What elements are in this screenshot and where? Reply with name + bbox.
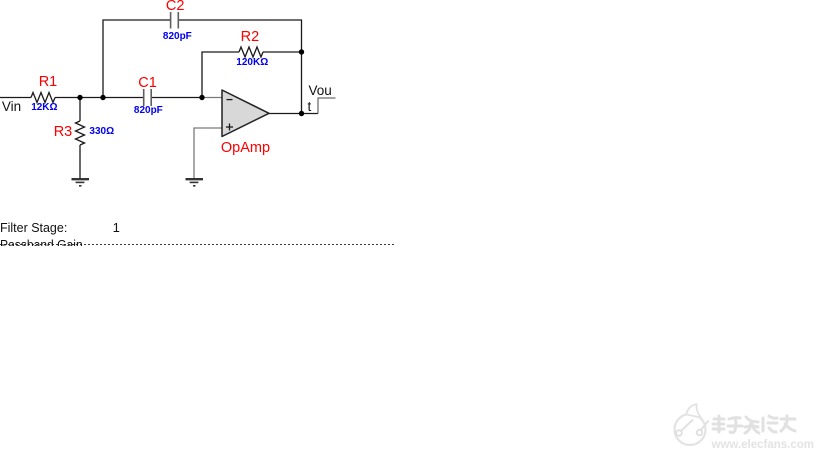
wire op-amp output — [269, 113, 302, 115]
node junction (C2 branch) — [100, 95, 105, 100]
text passband gain label — [0, 238, 82, 251]
node junction (R1/R3) — [77, 95, 82, 100]
wire R2 branch — [202, 52, 302, 98]
ground (under R3) — [72, 179, 90, 186]
value R2 120K — [236, 58, 268, 68]
wire R3 branch — [79, 98, 81, 179]
svg-text:www.elecfans.com: www.elecfans.com — [711, 439, 814, 451]
resistor R2 — [239, 47, 263, 57]
dotted leader line — [0, 244, 396, 245]
label R1 — [39, 75, 58, 90]
wire main input row — [0, 97, 202, 99]
wire Vout port step — [302, 98, 336, 114]
value C2 820pF — [163, 32, 192, 42]
wire op-amp minus lead — [202, 97, 222, 99]
capacitor C1 — [144, 89, 152, 106]
text filter stage value — [113, 221, 120, 234]
label R2 — [241, 30, 260, 45]
ground (op-amp plus input) — [186, 179, 204, 186]
watermark logo circle — [675, 404, 709, 445]
node junction (R2 right) — [299, 49, 304, 54]
op-amp U1 — [222, 90, 269, 137]
value R3 330 — [89, 127, 114, 137]
label Vout line1 — [309, 84, 332, 98]
text passband gain row (clipped) — [0, 236, 400, 246]
watermark chinese glyph strokes — [713, 416, 795, 433]
value R1 12K — [31, 103, 57, 113]
label Vin — [2, 100, 21, 114]
label Vout line2 — [308, 100, 312, 114]
label C2 — [166, 0, 185, 13]
resistor R1 — [31, 93, 55, 103]
node junction (output) — [299, 111, 304, 116]
label OpAmp — [221, 141, 270, 156]
node junction (minus input) — [199, 95, 204, 100]
resistor R3 — [76, 121, 85, 145]
label R3 — [54, 125, 73, 140]
label C1 — [138, 76, 157, 91]
capacitor C2 — [171, 12, 179, 29]
wire op-amp plus lead — [194, 128, 222, 178]
text filter stage row — [0, 221, 67, 234]
wire top loop (C2 branch) — [103, 20, 302, 114]
value C1 820pF — [134, 106, 163, 116]
